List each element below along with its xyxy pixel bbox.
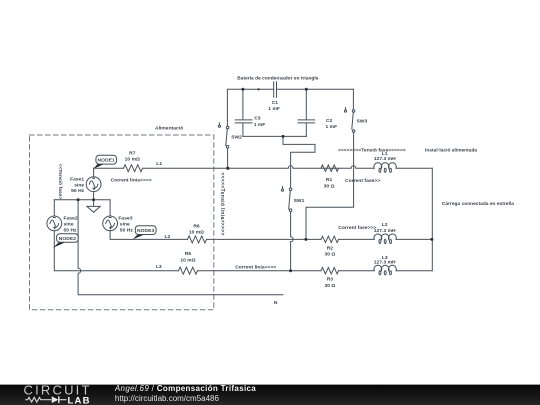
svg-text:NODE2: NODE2 [59,236,77,242]
resistor R6 [188,236,207,243]
capacitor bank top wire [227,88,353,90]
resistor R1 [321,165,339,171]
svg-text:1 mF: 1 mF [254,122,266,128]
wire L2 main line [110,231,432,240]
junction C2 top [305,88,308,91]
svg-text:R6: R6 [193,223,200,229]
svg-text:N: N [274,300,278,306]
svg-text:30 Ω: 30 Ω [324,183,335,189]
svg-text:Corrent fase>>: Corrent fase>> [345,178,380,184]
capacitor bank bottom wire [243,135,306,137]
svg-text:C1: C1 [272,100,279,106]
capacitor C2 [298,89,315,136]
svg-text:1 mF: 1 mF [326,124,338,130]
junction SW1 to L3 [289,269,292,272]
svg-text:http://circuitlab.com/cm5a486: http://circuitlab.com/cm5a486 [115,394,220,403]
dashed enclosure Alimentacio [30,135,214,310]
inductor L2 load [374,234,396,244]
svg-text:SW2: SW2 [231,135,242,141]
svg-text:L1: L1 [156,161,162,167]
node label NODE1 [93,155,116,169]
svg-text:Fase1: Fase1 [70,177,84,183]
inductor L1 load [374,163,396,173]
node label NODE3 [133,226,157,240]
junction SW2 to L1 [226,167,229,170]
svg-text:C3: C3 [254,116,261,122]
svg-text:127.3 mH: 127.3 mH [374,228,396,234]
svg-text:<<Tensió fase>: <<Tensió fase> [57,164,63,200]
svg-text:30 Ω: 30 Ω [324,283,335,289]
svg-text:127.3 mH: 127.3 mH [374,260,396,266]
schematic text labels [57,76,514,307]
svg-text:C2: C2 [326,118,333,124]
junction bank bottom [282,135,285,138]
junction C3 top [241,88,244,91]
junction star point Fase1 [92,198,95,201]
footer bar [0,385,540,405]
svg-text:R7: R7 [129,150,136,156]
svg-text:SW3: SW3 [357,119,368,125]
svg-text:Fase3: Fase3 [118,216,132,222]
svg-text:SW1: SW1 [294,198,305,204]
svg-text:<<<<<Tensió linia>>>>>: <<<<<Tensió linia>>>>> [219,172,225,235]
svg-text:Bateria de condensador en tria: Bateria de condensador en triangle [237,76,318,82]
svg-text:L2: L2 [382,222,388,228]
svg-text:50 Hz: 50 Hz [64,227,78,233]
svg-text:NODE3: NODE3 [137,228,155,234]
svg-text:127.3 mH: 127.3 mH [374,156,396,162]
svg-text:sine: sine [74,182,84,188]
svg-text:R5: R5 [185,251,192,257]
wire L1 main line [94,166,433,168]
inductor L3 load [374,265,396,275]
svg-text:L3: L3 [156,264,162,270]
svg-text:Corrent linia>>>>: Corrent linia>>>> [235,265,276,271]
ground [87,200,100,213]
svg-text:R3: R3 [327,277,334,283]
svg-text:NODE1: NODE1 [98,158,116,164]
svg-text:Fase2: Fase2 [64,216,78,222]
resistor R3 [321,268,339,274]
svg-text:LAB: LAB [68,395,91,405]
wire jog from bank to SW1 [283,136,315,188]
svg-text:Alimentació: Alimentació [155,125,183,131]
capacitor C3 [235,89,252,136]
svg-text:L2: L2 [165,234,171,240]
svg-text:sine: sine [120,222,130,228]
junction load star L2 [430,238,433,241]
svg-text:R2: R2 [327,246,334,252]
svg-text:10 mΩ: 10 mΩ [180,258,195,264]
junction C1 lead [257,88,259,90]
resistor R5 [179,267,198,274]
wire L3 main line [54,231,432,271]
svg-text:Instal·lació alimentada: Instal·lació alimentada [425,147,477,153]
svg-text:<<<<<<<<Tensió fase>>>>>>: <<<<<<<<Tensió fase>>>>>> [338,147,406,153]
svg-text:50 Hz: 50 Hz [71,188,85,194]
svg-text:Corrent fase>>>: Corrent fase>>> [338,225,376,231]
resistor R2 [321,236,339,242]
svg-text:10 mΩ: 10 mΩ [125,157,140,163]
voltage source Fase3 [103,200,118,231]
svg-text:R1: R1 [326,177,333,183]
wire bank left leg [226,89,228,168]
svg-text:10 mΩ: 10 mΩ [189,230,204,236]
switch SW3 [344,108,355,133]
svg-text:30 Ω: 30 Ω [324,252,335,258]
wire load star bus [431,168,433,271]
svg-text:50 Hz: 50 Hz [120,227,134,233]
junction SW3 to L2 [304,238,307,241]
voltage source Fase2 [47,200,62,231]
node label NODE2 [53,234,78,248]
svg-text:Angel.69 / Compensación Trifas: Angel.69 / Compensación Trifasica [114,384,256,393]
wire SW1 to L3 [291,212,294,271]
resistor R7 [124,165,143,172]
svg-text:Càrrega connectada en estrella: Càrrega connectada en estrella [442,201,514,207]
switch SW2 [218,123,229,148]
wire bank right leg [306,89,354,239]
voltage source Fase1 [86,168,101,200]
switch SW1 [281,187,292,212]
junction neutral tap [77,198,80,201]
svg-text:sine: sine [64,222,74,228]
svg-text:Corrent linia>>>>: Corrent linia>>>> [111,178,152,184]
footer title text [114,384,256,403]
circuitlab logo [24,383,92,405]
svg-text:1 mF: 1 mF [268,106,280,112]
capacitor C1 [274,82,277,98]
wire neutral star point [54,200,283,295]
